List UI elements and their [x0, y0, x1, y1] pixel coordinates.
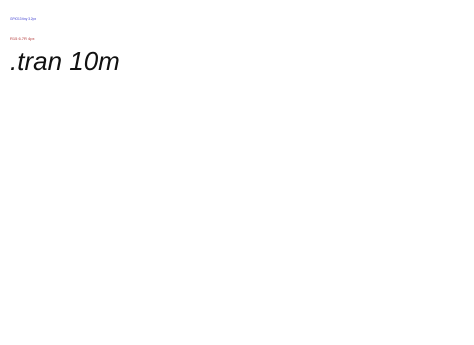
svg-text:GPIO13 tiny 3.2px: GPIO13 tiny 3.2px [10, 17, 36, 21]
svg-text:.tran 10m: .tran 10m [10, 46, 120, 76]
svg-text:R15 6.7R 4px: R15 6.7R 4px [10, 36, 34, 41]
